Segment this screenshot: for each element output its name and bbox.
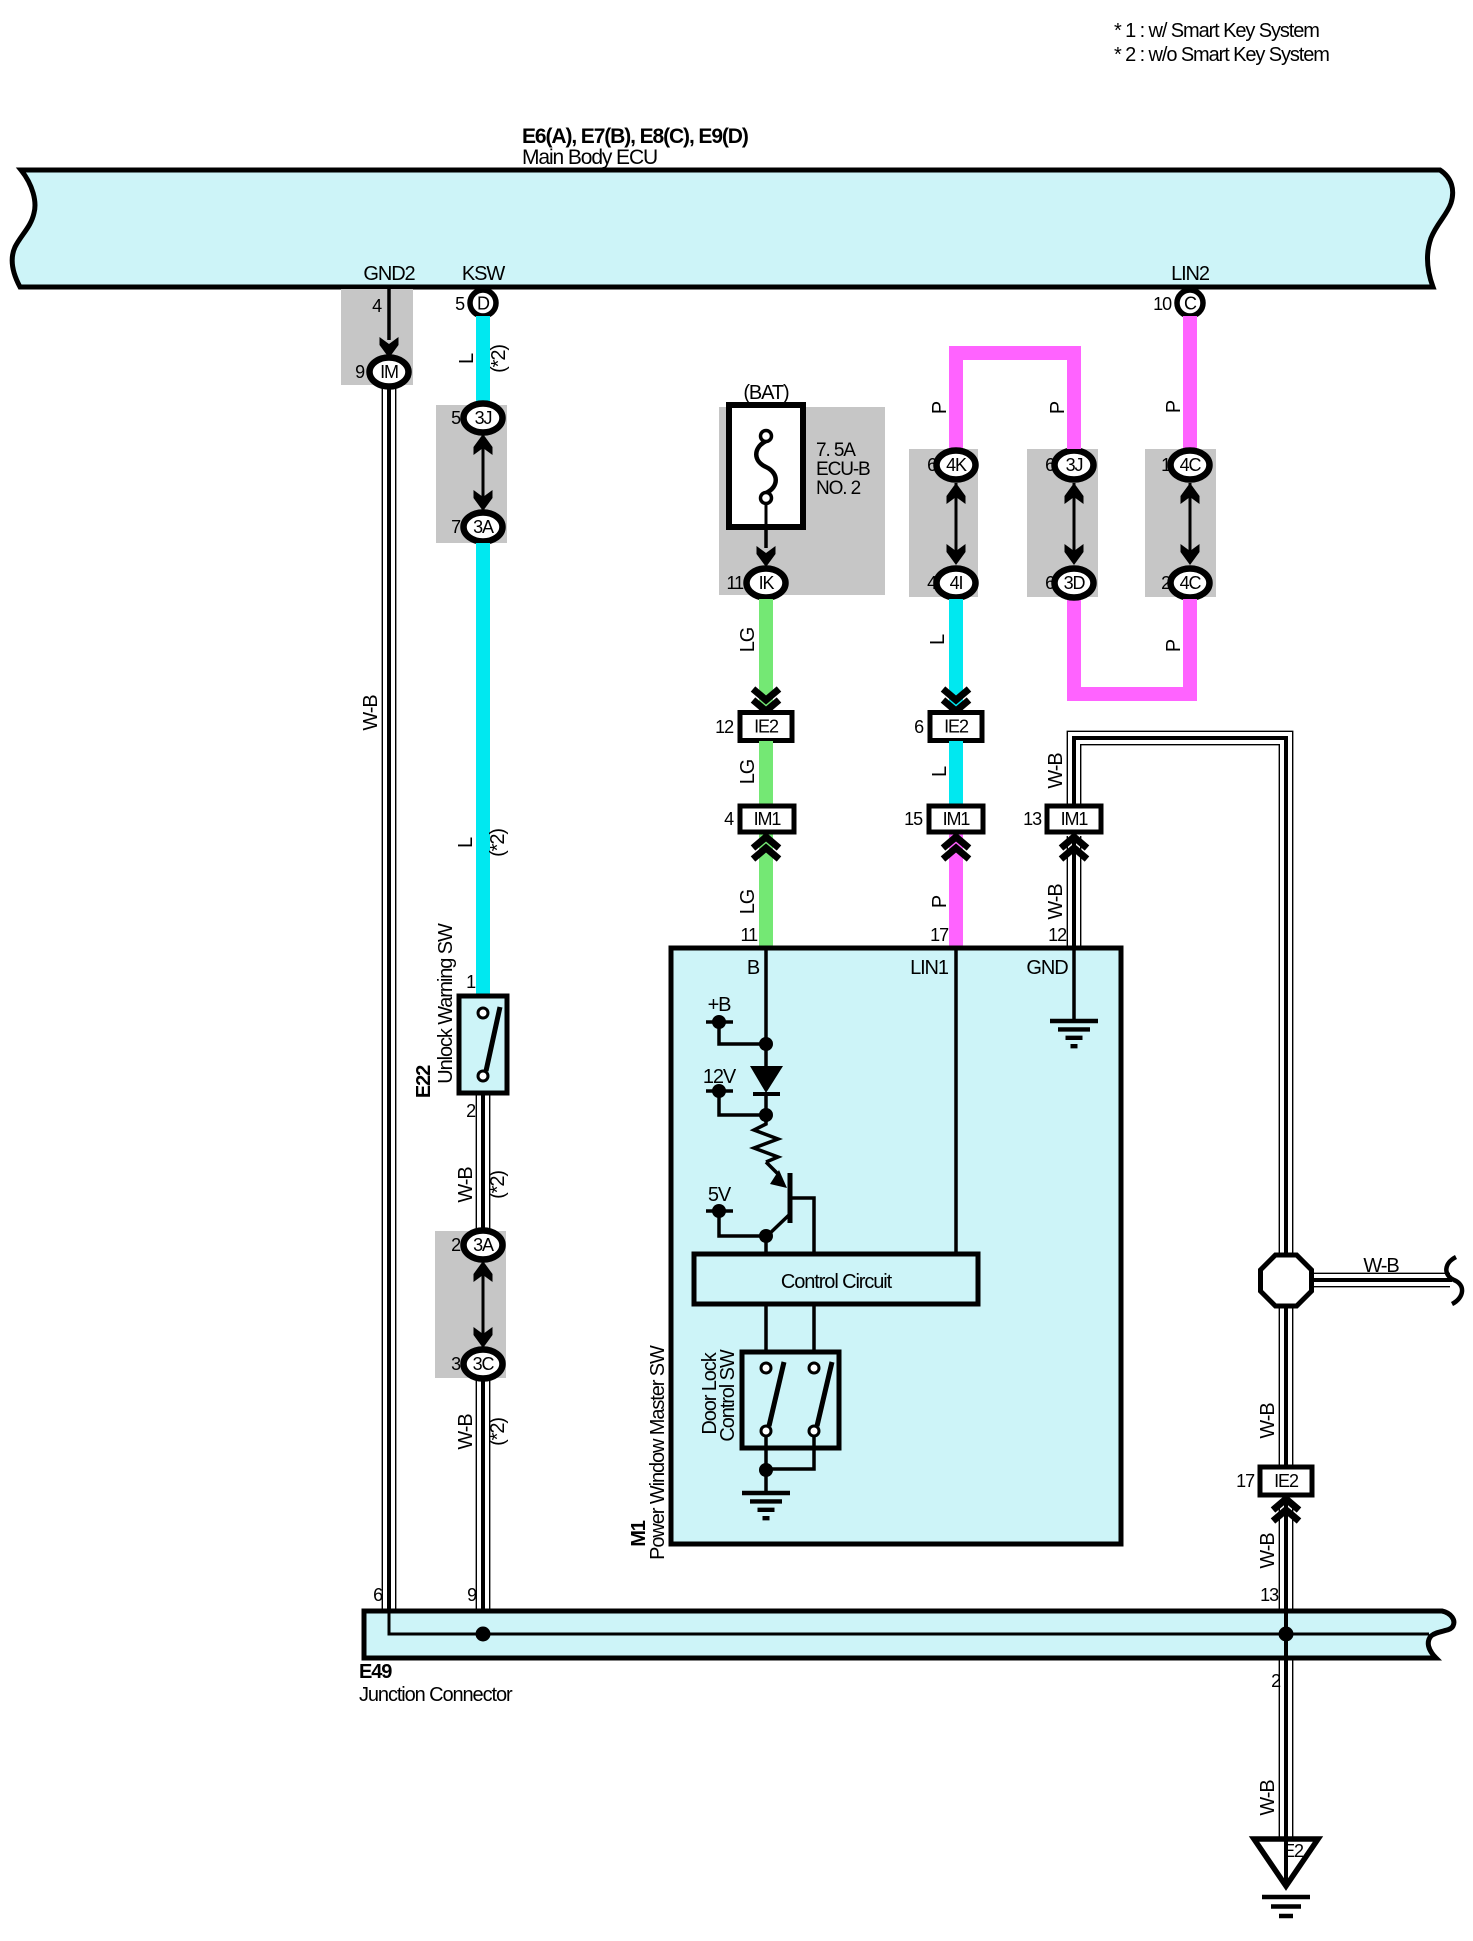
svg-text:IM1: IM1 <box>754 809 782 829</box>
wires control circuit to door lock SW <box>766 1304 814 1352</box>
connector 3A pin 7 <box>464 513 503 542</box>
ECU label <box>522 125 748 169</box>
connector 3J pin 5 <box>464 404 503 433</box>
terminal 12V <box>703 1066 773 1122</box>
svg-text:4: 4 <box>372 296 382 316</box>
svg-text:9: 9 <box>467 1585 477 1605</box>
svg-text:Main Body ECU: Main Body ECU <box>522 146 657 169</box>
wire L (*2) cyan from D to 3J <box>476 316 490 406</box>
connector 4I pin 4 <box>937 569 976 598</box>
svg-text:IM: IM <box>380 362 398 382</box>
svg-text:IK: IK <box>759 573 775 593</box>
svg-text:IE2: IE2 <box>944 717 969 737</box>
svg-text:17: 17 <box>1236 1471 1255 1491</box>
svg-text:B: B <box>747 957 760 979</box>
svg-text:12: 12 <box>715 717 734 737</box>
connector D pin 5 on ECU <box>470 290 496 316</box>
ground point E2 <box>1254 1839 1318 1886</box>
svg-text:L: L <box>456 353 478 364</box>
svg-text:9: 9 <box>355 362 365 382</box>
svg-text:3A: 3A <box>473 517 494 537</box>
wire W-B from IM to E49 pin 6 <box>387 386 391 1634</box>
svg-text:W-B: W-B <box>1363 1255 1399 1277</box>
wire W-B octagon to IE2 pin 17 <box>1284 1306 1288 1468</box>
svg-text:1: 1 <box>466 972 476 992</box>
svg-text:5: 5 <box>451 408 461 428</box>
svg-text:* 2 : w/o Smart Key System: * 2 : w/o Smart Key System <box>1114 44 1329 66</box>
internal wire GND to ground <box>1072 948 1076 1020</box>
connector IM1 pin 15 <box>929 806 983 832</box>
svg-text:+B: +B <box>708 994 732 1016</box>
gray junction box 4C/4C <box>1145 449 1216 597</box>
resistor <box>754 1115 778 1162</box>
terminal +B <box>706 994 773 1051</box>
terminal 5V <box>706 1184 773 1243</box>
svg-text:4C: 4C <box>1180 573 1202 593</box>
wire W-B E49 pin2 to E2 ground <box>1284 1658 1288 1884</box>
svg-text:5V: 5V <box>708 1184 732 1206</box>
octagon splice joint <box>1261 1255 1312 1306</box>
svg-text:LG: LG <box>737 627 759 652</box>
svg-text:ECU-B: ECU-B <box>816 459 870 480</box>
svg-text:E2: E2 <box>1283 1841 1304 1861</box>
connector 3C pin 3 <box>464 1350 503 1379</box>
internal wire LIN1 to control circuit <box>954 948 958 1254</box>
svg-text:Junction Connector: Junction Connector <box>359 1684 513 1706</box>
door lock control SW <box>742 1352 839 1448</box>
wire W-B branch right with break <box>1312 1278 1452 1282</box>
ground symbol door lock <box>742 1493 790 1518</box>
wire W-B IE2 to E49 pin 13 <box>1284 1494 1288 1634</box>
svg-text:(*2): (*2) <box>487 829 509 857</box>
svg-text:7. 5A: 7. 5A <box>816 440 856 461</box>
svg-text:P: P <box>1047 401 1069 414</box>
connector IM1 pin 4 <box>740 806 794 832</box>
wire L cyan IE2 to IM1 <box>949 741 963 806</box>
svg-text:4C: 4C <box>1180 455 1202 475</box>
connector IM1 pin 13 <box>1047 806 1101 832</box>
svg-text:(*2): (*2) <box>487 1418 509 1446</box>
svg-text:* 1 : w/ Smart Key System: * 1 : w/ Smart Key System <box>1114 20 1319 42</box>
svg-text:W-B: W-B <box>1257 1403 1279 1439</box>
svg-text:P: P <box>1163 400 1185 413</box>
svg-text:13: 13 <box>1023 809 1042 829</box>
connector IE2 pin 17 <box>1260 1467 1312 1495</box>
svg-text:GND2: GND2 <box>363 263 415 285</box>
wire P pink hook from 4C down-left-up to 3D <box>1074 599 1190 694</box>
wire W-B (*2) from 3C to E49 pin 9 <box>481 1380 485 1634</box>
gray junction box 3A/3C <box>435 1231 506 1378</box>
wire W-B from IM1 13 up right and down to octagon joint <box>1074 738 1286 1255</box>
gray junction box 3J/3A <box>436 405 507 543</box>
wire P pink IM1 to master SW pin 17 <box>949 832 963 948</box>
svg-text:KSW: KSW <box>462 263 505 285</box>
pin 4 wire GND2 <box>387 287 391 340</box>
gray connector box for pin4/IM <box>341 289 413 385</box>
svg-text:(BAT): (BAT) <box>743 382 789 404</box>
ground symbol internal GND <box>1050 1021 1098 1046</box>
svg-text:LG: LG <box>737 759 759 784</box>
svg-text:IE2: IE2 <box>1274 1471 1299 1491</box>
unlock warning switch E22 <box>459 996 507 1093</box>
svg-text:LG: LG <box>737 889 759 914</box>
svg-text:NO. 2: NO. 2 <box>816 478 861 499</box>
svg-text:6: 6 <box>927 455 937 475</box>
svg-text:4: 4 <box>724 809 734 829</box>
internal bus wire E49 <box>389 1611 1429 1634</box>
wire L cyan from 4I to IE2 <box>949 599 963 712</box>
wire break squiggle <box>1446 1257 1462 1304</box>
svg-text:W-B: W-B <box>360 695 382 731</box>
gray fuse box area <box>719 407 885 595</box>
svg-text:L: L <box>455 837 477 848</box>
svg-text:6: 6 <box>373 1585 383 1605</box>
svg-text:W-B: W-B <box>1257 1780 1279 1816</box>
svg-text:3: 3 <box>451 1354 461 1374</box>
svg-text:5: 5 <box>455 294 465 314</box>
svg-text:12: 12 <box>1048 925 1067 945</box>
svg-text:C: C <box>1184 294 1197 314</box>
svg-text:3C: 3C <box>473 1354 495 1374</box>
svg-text:3J: 3J <box>475 408 492 428</box>
svg-text:3J: 3J <box>1066 455 1083 475</box>
svg-text:6: 6 <box>1045 455 1055 475</box>
svg-text:W-B: W-B <box>455 1167 477 1203</box>
svg-text:L: L <box>927 634 949 645</box>
svg-text:D: D <box>477 294 490 314</box>
svg-text:LIN1: LIN1 <box>910 957 949 979</box>
svg-text:L: L <box>929 766 951 777</box>
wire LG green IM1 to master SW pin 11 <box>759 832 773 948</box>
svg-text:4I: 4I <box>950 573 963 593</box>
svg-text:GND: GND <box>1026 957 1068 979</box>
svg-text:2: 2 <box>466 1101 476 1121</box>
connector 3D pin 6 <box>1055 569 1094 598</box>
connector IM pin 9 <box>370 358 409 387</box>
svg-text:4K: 4K <box>946 455 967 475</box>
wire P pink hook from 3J up-left-down to 4K <box>956 353 1074 449</box>
ground symbol E2 <box>1262 1897 1310 1916</box>
junction connector E49 band <box>364 1611 1454 1658</box>
svg-text:E22: E22 <box>413 1065 435 1098</box>
wire LG green IE2 to IM1 <box>759 741 773 806</box>
svg-text:IE2: IE2 <box>754 717 779 737</box>
wire pin13 through band <box>1284 1611 1288 1658</box>
svg-text:(*2): (*2) <box>488 345 510 373</box>
svg-text:4: 4 <box>927 573 937 593</box>
fuse rating label <box>816 440 870 499</box>
svg-text:IM1: IM1 <box>943 809 971 829</box>
svg-text:3A: 3A <box>473 1235 494 1255</box>
svg-text:7: 7 <box>451 517 461 537</box>
junction node pin 9 <box>476 1627 491 1642</box>
svg-text:10: 10 <box>1153 294 1172 314</box>
gray junction box 3J/3D <box>1027 449 1098 597</box>
svg-text:15: 15 <box>904 809 923 829</box>
wire W-B from master GND pin 12 up to IM1 pin 13 <box>1072 832 1076 948</box>
svg-text:Power Window Master SW: Power Window Master SW <box>647 1345 669 1560</box>
wire L (*2) cyan from 3A to unlock warning SW <box>476 543 490 996</box>
connector IE2 pin 6 <box>930 713 982 741</box>
connector 3A pin 2 <box>464 1231 503 1260</box>
svg-text:Unlock Warning SW: Unlock Warning SW <box>435 923 457 1084</box>
svg-text:E49: E49 <box>359 1661 392 1683</box>
wire LG green IK to IE2 <box>759 599 773 712</box>
wire P pink from C to 4C <box>1183 316 1197 449</box>
svg-text:3D: 3D <box>1064 573 1086 593</box>
fuse 7.5A ECU-B NO.2 <box>729 405 803 527</box>
svg-text:P: P <box>1163 639 1185 652</box>
transistor Q <box>766 1162 814 1254</box>
svg-text:Control Circuit: Control Circuit <box>781 1271 893 1293</box>
connector 4C pin 1 <box>1171 451 1210 480</box>
svg-text:W-B: W-B <box>1045 884 1067 920</box>
svg-text:6: 6 <box>914 717 924 737</box>
svg-text:2: 2 <box>1161 573 1171 593</box>
svg-text:11: 11 <box>727 573 745 593</box>
diode <box>750 1066 783 1094</box>
internal wire B to control circuit <box>764 948 768 1254</box>
svg-text:IM1: IM1 <box>1061 809 1089 829</box>
control circuit box <box>694 1254 978 1304</box>
svg-text:2: 2 <box>451 1235 461 1255</box>
svg-text:W-B: W-B <box>455 1414 477 1450</box>
svg-text:W-B: W-B <box>1257 1533 1279 1569</box>
connector C pin 10 on ECU <box>1177 290 1203 316</box>
Main Body ECU E6(A),E7(B),E8(C),E9(D) band <box>12 170 1452 287</box>
svg-text:Control SW: Control SW <box>717 1349 739 1441</box>
svg-text:6: 6 <box>1045 573 1055 593</box>
junction node pin 13/2 <box>1279 1627 1294 1642</box>
connector IK pin 11 <box>747 569 786 598</box>
svg-text:E6(A), E7(B), E8(C), E9(D): E6(A), E7(B), E8(C), E9(D) <box>522 125 748 148</box>
svg-text:P: P <box>929 401 951 414</box>
power window master switch M1 box <box>671 948 1121 1544</box>
wire fuse to IK <box>764 527 768 548</box>
svg-text:P: P <box>929 895 951 908</box>
connector 4K pin 6 <box>937 451 976 480</box>
svg-text:13: 13 <box>1260 1585 1279 1605</box>
svg-text:LIN2: LIN2 <box>1171 263 1210 285</box>
svg-text:W-B: W-B <box>1045 753 1067 789</box>
svg-text:17: 17 <box>930 925 949 945</box>
connector 3J pin 6 <box>1055 451 1094 480</box>
gray junction box 4K/4I <box>909 449 978 597</box>
connector IE2 pin 12 <box>740 713 792 741</box>
svg-text:11: 11 <box>741 925 759 945</box>
wires door lock SW to ground <box>759 1436 814 1492</box>
wire W-B (*2) from E22 to 3A <box>481 1093 485 1231</box>
connector 4C pin 2 <box>1171 569 1210 598</box>
label E49 <box>359 1661 513 1706</box>
svg-text:(*2): (*2) <box>487 1171 509 1199</box>
svg-text:1: 1 <box>1161 455 1171 475</box>
